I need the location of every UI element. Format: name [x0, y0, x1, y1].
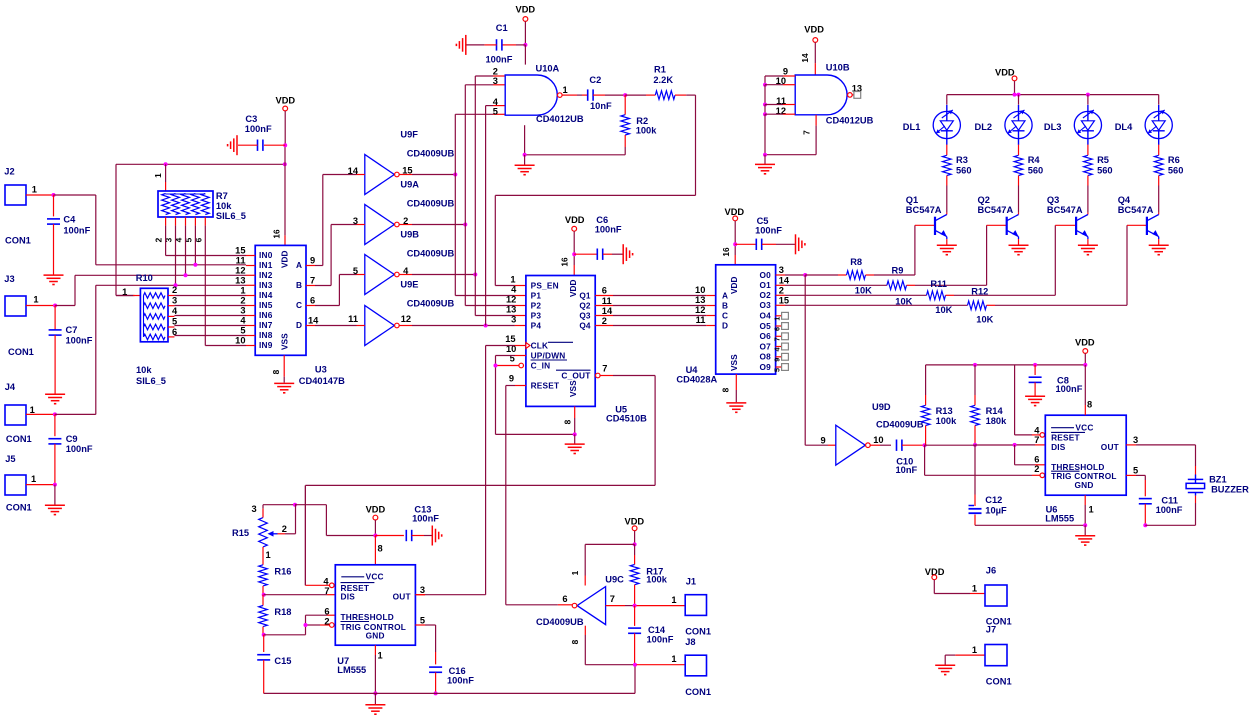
capacitor C1	[502, 44, 516, 46]
wire R10 pin4	[168, 315, 174, 317]
wire Q1 emitter to ground	[946, 239, 948, 245]
ground J7	[935, 664, 955, 666]
svg-text:560: 560	[1028, 165, 1044, 175]
svg-text:O6: O6	[760, 331, 772, 341]
wire U7 pin8	[374, 536, 376, 565]
svg-text:VDD: VDD	[729, 276, 739, 294]
ground Q2	[1009, 244, 1029, 246]
wire to J1	[637, 605, 686, 607]
LED DL4	[1145, 111, 1172, 138]
svg-text:7: 7	[772, 337, 781, 341]
wire U3.B to U9B	[315, 285, 331, 287]
svg-text:1: 1	[972, 645, 977, 655]
wire net U9A-U10A.5-U5.P1	[454, 114, 456, 295]
svg-text:U9C: U9C	[605, 574, 624, 584]
wire C15 to rail	[263, 660, 265, 694]
svg-text:CD40147B: CD40147B	[299, 376, 345, 386]
svg-text:IN0: IN0	[259, 250, 273, 260]
svg-text:CD4012UB: CD4012UB	[536, 114, 584, 124]
ground C4	[44, 274, 64, 276]
svg-text:O9: O9	[760, 362, 772, 372]
wire U5 Q4 to U4 D	[595, 325, 613, 327]
svg-text:BC547A: BC547A	[978, 205, 1014, 215]
node C_IN	[494, 364, 498, 368]
wire rail to DL2	[1018, 95, 1020, 105]
svg-text:9: 9	[821, 436, 826, 446]
svg-text:A: A	[296, 260, 302, 270]
svg-text:100nF: 100nF	[412, 514, 439, 524]
U10B output bubble	[848, 93, 853, 98]
wire R10 pin2	[168, 295, 174, 297]
svg-text:2: 2	[324, 616, 329, 626]
svg-text:D: D	[722, 320, 728, 330]
wire VDD to U4 pin16	[734, 221, 736, 245]
svg-text:100nF: 100nF	[66, 336, 93, 346]
connector J5	[5, 475, 26, 495]
svg-text:Q2: Q2	[978, 195, 990, 205]
capacitor C12 (electrolytic)	[974, 445, 976, 495]
svg-text:C: C	[296, 300, 302, 310]
wire buzzer to ground rail	[1195, 496, 1197, 503]
svg-text:VSS: VSS	[729, 354, 739, 371]
wire VDD to U9C pin1	[585, 543, 634, 545]
wire U10B pin7 to ground	[815, 115, 817, 126]
capacitor C9	[54, 414, 56, 436]
wire Q2 emitter to ground	[1018, 239, 1020, 245]
node J4	[53, 412, 57, 416]
svg-text:10K: 10K	[935, 305, 952, 315]
svg-text:DIS: DIS	[1051, 442, 1066, 452]
node C5	[733, 242, 737, 246]
svg-text:J7: J7	[986, 625, 996, 635]
svg-text:R9: R9	[892, 266, 904, 276]
svg-text:14: 14	[602, 306, 613, 316]
svg-text:C12: C12	[985, 495, 1002, 505]
svg-text:CD4009UB: CD4009UB	[407, 299, 455, 309]
ground U5	[574, 434, 576, 443]
svg-text:3: 3	[240, 306, 245, 316]
IC U4 box	[716, 265, 776, 374]
svg-text:DL1: DL1	[903, 122, 921, 132]
svg-text:P1: P1	[531, 290, 542, 300]
svg-text:LM555: LM555	[1045, 513, 1074, 523]
node R17 VDD	[633, 542, 637, 546]
wire R1 to PS_EN	[675, 94, 686, 96]
svg-text:7: 7	[602, 364, 607, 374]
svg-text:SIL6_5: SIL6_5	[136, 376, 166, 386]
svg-text:9: 9	[509, 374, 514, 384]
wire net U9B-U10A.3-U5.P2	[464, 85, 466, 306]
wire C3 to ground	[238, 144, 258, 146]
wire CLK net	[515, 345, 526, 347]
inverter U9 (pins 11-12)	[365, 306, 395, 346]
resistor R14	[974, 365, 976, 395]
svg-text:13: 13	[695, 295, 705, 305]
svg-text:BUZZER: BUZZER	[1211, 484, 1249, 494]
svg-text:16: 16	[272, 229, 282, 239]
node J3	[53, 304, 57, 308]
svg-text:C15: C15	[274, 656, 291, 666]
node U5 ground	[573, 432, 577, 436]
connector J4	[5, 405, 26, 425]
resistor network R7	[158, 191, 213, 217]
wire O0 to R8	[805, 274, 838, 276]
svg-text:4: 4	[403, 266, 409, 276]
wire C2 to node	[593, 94, 605, 96]
wire U9B out	[399, 224, 412, 226]
svg-text:O4: O4	[760, 311, 772, 321]
ground J5	[45, 504, 65, 506]
potentiometer R15	[259, 518, 268, 547]
svg-text:CLK: CLK	[531, 340, 549, 350]
wire R7 pin1	[165, 164, 167, 182]
svg-text:14: 14	[779, 275, 790, 285]
svg-text:C7: C7	[66, 325, 78, 335]
wire DIS row	[925, 444, 975, 446]
wire C_OUT net	[600, 375, 613, 377]
wire VDD to J6	[933, 580, 935, 594]
resistor R16	[259, 565, 268, 586]
svg-text:CD4510B: CD4510B	[606, 414, 647, 424]
ground U4	[726, 402, 746, 404]
wire R7 pin5 to IN1	[194, 217, 196, 226]
svg-text:IN8: IN8	[259, 330, 273, 340]
svg-text:J4: J4	[5, 382, 16, 392]
svg-text:1: 1	[1089, 505, 1094, 515]
svg-text:8: 8	[563, 419, 573, 424]
wire J3 pin1	[26, 305, 55, 307]
svg-text:OUT: OUT	[393, 592, 411, 602]
svg-text:IN7: IN7	[259, 320, 273, 330]
inverter U9D	[836, 425, 866, 465]
wire TRIG net U7	[264, 634, 306, 636]
svg-text:2: 2	[154, 237, 164, 242]
svg-text:O0: O0	[760, 270, 772, 280]
ground U7	[374, 693, 376, 704]
resistor R2	[624, 95, 626, 115]
svg-text:560: 560	[1097, 165, 1113, 175]
svg-text:2: 2	[1034, 464, 1039, 474]
svg-text:VCC: VCC	[366, 571, 384, 581]
svg-text:U9B: U9B	[400, 230, 419, 240]
wire U10B pin11	[783, 104, 795, 106]
wire rail to DL1	[946, 95, 948, 105]
node J5	[53, 483, 57, 487]
U5 C_OUT bubble	[596, 373, 601, 378]
wire C_IN stub	[496, 365, 519, 367]
svg-text:THRESHOLD: THRESHOLD	[341, 612, 394, 622]
svg-text:GND: GND	[1075, 480, 1094, 490]
ground C7	[45, 393, 65, 395]
svg-text:R11: R11	[930, 279, 947, 289]
node U10A ground	[523, 153, 527, 157]
svg-text:1: 1	[33, 295, 38, 305]
svg-text:R5: R5	[1097, 155, 1109, 165]
resistor R3	[943, 155, 952, 175]
node U7 ground	[373, 691, 377, 695]
svg-text:7: 7	[1034, 435, 1039, 445]
svg-text:BC547A: BC547A	[1047, 205, 1083, 215]
IC U6 box	[1045, 415, 1126, 495]
svg-text:IN2: IN2	[259, 270, 273, 280]
node U10B pin12	[763, 112, 767, 116]
wire Q3 emitter to ground	[1087, 239, 1089, 245]
wire C12 to ground rail	[974, 515, 976, 526]
svg-text:BZ1: BZ1	[1209, 475, 1227, 485]
svg-text:4: 4	[772, 348, 781, 352]
wire J3 to IN2	[55, 305, 75, 307]
svg-text:6: 6	[772, 327, 781, 331]
svg-text:O8: O8	[760, 352, 772, 362]
node P4	[484, 324, 488, 328]
svg-text:CD4028A: CD4028A	[676, 374, 717, 384]
svg-text:LM555: LM555	[337, 665, 366, 675]
svg-text:3: 3	[1133, 435, 1138, 445]
svg-text:3: 3	[353, 216, 358, 226]
svg-text:5: 5	[493, 107, 498, 117]
svg-text:CD4009UB: CD4009UB	[407, 148, 455, 158]
U4 no-connect pins O4-O9	[776, 315, 782, 317]
inverter U9B	[365, 205, 395, 245]
svg-text:C: C	[722, 310, 728, 320]
ground C5	[795, 234, 797, 254]
svg-text:Q4: Q4	[579, 320, 590, 330]
svg-text:10K: 10K	[855, 286, 872, 296]
node R15	[293, 503, 297, 507]
wire R11 to Q3 base	[946, 294, 955, 296]
node O0	[803, 273, 807, 277]
wire net P4-U10A.4	[485, 106, 487, 326]
svg-text:A: A	[722, 290, 728, 300]
svg-text:O7: O7	[760, 341, 772, 351]
svg-text:11: 11	[696, 315, 706, 325]
svg-text:OUT: OUT	[1101, 442, 1119, 452]
ground C1	[465, 35, 467, 55]
buzzer BZ1	[1195, 475, 1197, 480]
svg-text:R1: R1	[654, 65, 666, 75]
svg-text:R13: R13	[936, 406, 953, 416]
wire U6 pin5 to C11	[1126, 474, 1136, 476]
svg-text:100nF: 100nF	[245, 124, 272, 134]
U6 TRIG bubble	[1040, 473, 1045, 478]
wire node to R1	[625, 94, 646, 96]
node C6	[572, 252, 576, 256]
inverter U9C	[577, 587, 606, 625]
wire U3.A to U9A	[315, 265, 323, 267]
svg-text:4: 4	[240, 316, 246, 326]
svg-text:U9A: U9A	[400, 180, 419, 190]
node U6 ground	[1083, 523, 1087, 527]
wire J4 pin1	[26, 413, 55, 415]
wire U7 pin1	[374, 645, 376, 655]
wire RESET net	[515, 385, 526, 387]
svg-text:CD4012UB: CD4012UB	[826, 116, 874, 126]
svg-text:100nF: 100nF	[1156, 505, 1183, 515]
wire UPDWN net	[515, 355, 526, 357]
wire DL2 to R4	[1018, 145, 1020, 156]
wire VDD C1	[524, 21, 526, 45]
svg-text:12: 12	[401, 314, 411, 324]
wire R16 to DIS node	[262, 586, 264, 595]
wire C16 to rail	[435, 672, 437, 693]
svg-text:15: 15	[505, 334, 515, 344]
svg-text:100nF: 100nF	[486, 55, 513, 65]
wire R10 pin3	[168, 305, 174, 307]
svg-text:Q1: Q1	[906, 195, 918, 205]
svg-text:5: 5	[353, 266, 358, 276]
connector J2	[5, 185, 26, 205]
svg-text:VDD: VDD	[625, 517, 645, 527]
wire VDD to U6 RESET	[1014, 365, 1016, 435]
node R16 R18 DIS	[262, 593, 266, 597]
svg-text:D: D	[296, 320, 302, 330]
svg-text:CON1: CON1	[685, 687, 711, 697]
ground U3	[274, 382, 294, 384]
resistor R12	[968, 301, 987, 310]
node R14 rail	[973, 363, 977, 367]
wire U10B pin9	[783, 75, 795, 77]
wire U4 pin8	[735, 374, 737, 390]
node C10 R13	[923, 443, 927, 447]
svg-text:8: 8	[570, 639, 580, 644]
wire C8 to ground	[1034, 382, 1036, 395]
node U9C J1	[633, 604, 637, 608]
capacitor C11	[1139, 498, 1152, 500]
svg-text:11: 11	[602, 296, 612, 306]
svg-text:100nF: 100nF	[595, 225, 622, 235]
wire R15 wiper	[278, 533, 286, 535]
wire U9A out	[399, 174, 412, 176]
svg-text:J1: J1	[686, 577, 696, 587]
svg-text:16: 16	[560, 257, 570, 267]
wire J5 to ground	[54, 485, 56, 506]
node U6 rail VDD	[1083, 363, 1087, 367]
inverter U9A	[365, 155, 395, 195]
svg-text:DL3: DL3	[1044, 122, 1062, 132]
wire R12 to Q4 base	[987, 304, 996, 306]
svg-text:9: 9	[772, 358, 781, 362]
svg-text:12: 12	[506, 295, 516, 305]
wire to J8	[637, 664, 686, 666]
ground C6	[622, 244, 624, 264]
svg-text:1: 1	[266, 550, 271, 560]
wire R13 to node	[925, 426, 927, 446]
no-connect U10B.13	[852, 94, 854, 96]
capacitor C3	[264, 144, 285, 146]
svg-text:J3: J3	[4, 274, 14, 284]
wire R7 pin6 to IN9	[204, 217, 206, 226]
node U9E out	[473, 273, 477, 277]
U5 CLK input marker	[526, 343, 530, 349]
svg-text:U10B: U10B	[826, 63, 850, 73]
wire net U9E-U10A.2-U5.P3	[474, 76, 476, 316]
connector J6	[985, 585, 1007, 606]
resistor network R10	[140, 288, 168, 342]
wire rail to DL4	[1158, 95, 1160, 105]
wire U9C in	[606, 605, 625, 607]
svg-text:VDD: VDD	[1075, 338, 1095, 348]
node C3	[283, 143, 287, 147]
wire VDD stub below C1	[524, 45, 526, 65]
U7 RESET bubble	[330, 583, 335, 588]
ground C3	[236, 135, 238, 155]
svg-text:13: 13	[506, 305, 516, 315]
node U9A out	[453, 173, 457, 177]
svg-text:560: 560	[1168, 165, 1184, 175]
svg-text:3: 3	[172, 296, 177, 306]
wire bottom rail	[264, 692, 635, 694]
svg-text:6: 6	[562, 594, 567, 604]
svg-text:1: 1	[378, 651, 383, 661]
wire U10B pin10	[783, 84, 795, 86]
svg-text:12: 12	[235, 265, 245, 275]
svg-text:100k: 100k	[936, 416, 958, 426]
svg-text:VDD: VDD	[516, 5, 536, 15]
svg-text:R3: R3	[956, 155, 968, 165]
svg-text:SIL6_5: SIL6_5	[216, 211, 246, 221]
svg-text:GND: GND	[366, 631, 385, 641]
wire O0 row	[776, 274, 785, 276]
connector J8	[685, 655, 706, 676]
node C8 rail	[1033, 363, 1037, 367]
svg-text:1: 1	[972, 583, 977, 593]
svg-text:8: 8	[1087, 400, 1092, 410]
node R18 C15 TRIG	[262, 633, 266, 637]
svg-text:C3: C3	[245, 114, 257, 124]
LED DL3	[1074, 111, 1101, 138]
svg-text:100nF: 100nF	[647, 635, 674, 645]
svg-text:RESET: RESET	[531, 380, 560, 390]
svg-text:2: 2	[602, 316, 607, 326]
svg-text:IN9: IN9	[259, 340, 273, 350]
wire R3 to Q1 collector	[946, 176, 948, 186]
wire VDD C13 to pin8	[374, 520, 376, 536]
svg-text:VSS: VSS	[568, 380, 578, 397]
svg-text:10k: 10k	[136, 365, 152, 375]
node U10B pin11	[763, 103, 767, 107]
svg-text:J2: J2	[4, 167, 14, 177]
svg-text:15: 15	[235, 246, 245, 256]
capacitor C10	[896, 440, 898, 451]
svg-text:1: 1	[772, 317, 781, 321]
svg-text:O2: O2	[760, 290, 772, 300]
resistor R1	[655, 91, 675, 100]
wire U5 Q2 to U4 B	[595, 305, 613, 307]
svg-text:8: 8	[271, 369, 281, 374]
IC U5 box	[526, 276, 595, 407]
svg-text:12: 12	[695, 305, 705, 315]
svg-text:2: 2	[282, 524, 287, 534]
svg-text:VDD: VDD	[565, 215, 585, 225]
svg-text:1: 1	[32, 185, 37, 195]
wire C13 to ground	[412, 535, 424, 537]
svg-text:O1: O1	[760, 280, 772, 290]
svg-text:IN5: IN5	[259, 300, 273, 310]
wire to ground U10A	[524, 155, 526, 165]
svg-text:100nF: 100nF	[66, 444, 93, 454]
svg-text:10nF: 10nF	[896, 465, 918, 475]
svg-text:4: 4	[172, 306, 178, 316]
svg-text:C4: C4	[63, 215, 76, 225]
U3 output pin stubs	[306, 265, 315, 267]
svg-text:IN1: IN1	[259, 260, 273, 270]
wire J2 to IN1	[54, 194, 96, 196]
wire Q4 emitter to ground	[1158, 239, 1160, 245]
wire U7 RESET net	[305, 584, 329, 586]
svg-text:O5: O5	[760, 321, 772, 331]
wire C7 to ground	[54, 335, 56, 394]
capacitor C8	[1034, 365, 1036, 375]
